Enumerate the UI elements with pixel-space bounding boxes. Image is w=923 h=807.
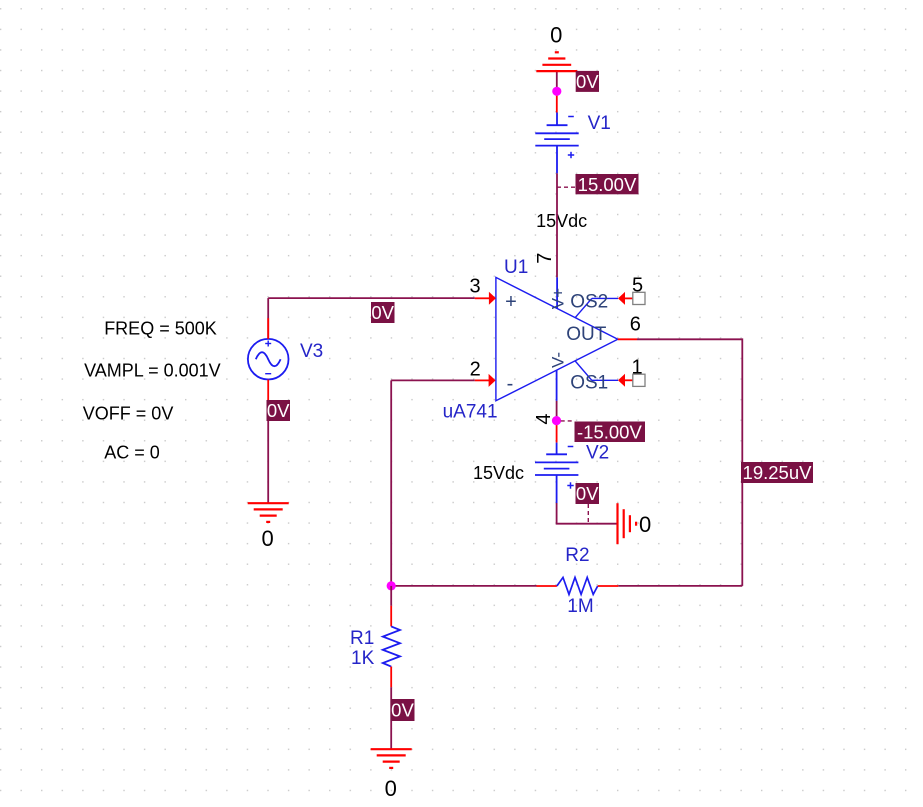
- op-amp OS2 internal lead: [575, 298, 618, 317]
- svg-text:15.00V: 15.00V: [578, 174, 637, 195]
- svg-text:R1: R1: [350, 628, 374, 649]
- pin stub V1 top (red): [556, 91, 558, 112]
- pin 6 stub (red): [618, 338, 637, 340]
- op-amp U1 triangle: [496, 277, 618, 400]
- junction dot (feedback node): [387, 581, 396, 590]
- op-amp OS1 internal lead: [575, 361, 618, 380]
- svg-text:0: 0: [639, 512, 651, 537]
- svg-text:-: -: [507, 373, 514, 395]
- dashed bias connector to -15.00V: [561, 420, 575, 422]
- sine source V3: [248, 339, 289, 380]
- svg-text:0V: 0V: [391, 700, 414, 721]
- ground 0 (below V3): [248, 503, 289, 522]
- wire: V2 bottom to side ground: [557, 503, 618, 524]
- svg-text:V-: V-: [549, 352, 568, 368]
- svg-text:VOFF = 0V: VOFF = 0V: [83, 403, 174, 423]
- ground 0 (below R1): [371, 749, 412, 768]
- R2 right stub (red): [598, 585, 619, 587]
- svg-text:0: 0: [385, 776, 397, 801]
- junction dot (top, V1/ground): [552, 87, 561, 96]
- svg-text:OS1: OS1: [570, 373, 608, 394]
- wire: pin2 corner down to junction: [390, 380, 392, 586]
- pin 5 terminal square: [633, 292, 645, 304]
- ground 0 (sideways, V2): [618, 503, 637, 544]
- bias label -15.00V: [575, 422, 646, 443]
- svg-text:uA741: uA741: [443, 402, 498, 423]
- battery V1: [535, 113, 578, 174]
- svg-text:6: 6: [630, 313, 641, 335]
- op-amp pin 4 stub (V-): [556, 370, 558, 401]
- wire: pin 2 horizontal: [391, 379, 475, 381]
- junction dot (pin 4 / V2): [552, 416, 561, 425]
- pin 2 arrowhead: [489, 374, 496, 387]
- R1 bottom stub (red): [390, 667, 392, 688]
- svg-text:1K: 1K: [351, 648, 375, 669]
- svg-text:AC = 0: AC = 0: [104, 443, 160, 463]
- svg-text:0: 0: [261, 526, 273, 551]
- pin 5 stub (red) with arrowhead: [625, 297, 633, 299]
- svg-text:FREQ = 500K: FREQ = 500K: [104, 319, 217, 339]
- svg-text:R2: R2: [565, 545, 589, 566]
- svg-text:OUT: OUT: [566, 324, 607, 345]
- wire: V1 bottom to op-amp pin 7: [556, 173, 558, 277]
- svg-text:0V: 0V: [371, 302, 394, 323]
- pin 2 stub (red): [475, 379, 490, 381]
- V2 top stub (red): [556, 421, 558, 443]
- battery V2: [535, 443, 578, 503]
- svg-text:-15.00V: -15.00V: [577, 422, 642, 443]
- wire: R1 to ground: [390, 687, 392, 749]
- svg-text:19.25uV: 19.25uV: [743, 462, 813, 483]
- svg-text:2: 2: [470, 358, 481, 380]
- wire: junction to R2 left: [391, 585, 536, 587]
- wire: pin 4 to V2: [556, 401, 558, 421]
- svg-text:0V: 0V: [576, 71, 599, 92]
- R2 left stub (red): [537, 585, 557, 587]
- bias label 0V (V2 bottom): [576, 483, 600, 504]
- dashed bias connector to 15.00V: [557, 186, 576, 188]
- bias label 0V (V3 top wire): [371, 302, 395, 323]
- op-amp pin 7 stub (V+): [556, 277, 558, 308]
- svg-text:+: +: [505, 291, 517, 313]
- svg-text:4: 4: [533, 413, 555, 424]
- bias label 0V (R1 bottom): [391, 699, 415, 721]
- wire: pin 6 to right rail: [637, 339, 742, 586]
- bias label 0V (below V3): [267, 400, 291, 421]
- svg-text:V3: V3: [300, 341, 323, 362]
- svg-text:1M: 1M: [567, 596, 593, 617]
- svg-text:OS2: OS2: [570, 292, 608, 313]
- ground 0 (top, above V1): [536, 52, 577, 71]
- svg-text:0V: 0V: [576, 483, 599, 504]
- svg-text:3: 3: [469, 276, 480, 298]
- svg-text:7: 7: [534, 253, 556, 264]
- bias label 15.00V: [576, 174, 639, 195]
- pin 1 terminal square: [633, 374, 645, 386]
- pin 3 stub (red): [475, 297, 490, 299]
- svg-text:15Vdc: 15Vdc: [473, 463, 524, 483]
- bias label 0V (top ground): [576, 71, 600, 92]
- wire: V3 to pin 3 (horizontal): [268, 297, 475, 299]
- V3 top stub (red): [267, 318, 269, 339]
- wire: V3 to ground: [267, 401, 269, 503]
- resistor R2: [557, 577, 598, 594]
- R1 top stub (red): [390, 606, 392, 627]
- svg-text:15Vdc: 15Vdc: [536, 211, 587, 231]
- bias label 19.25uV (output): [741, 462, 813, 483]
- wire: V3 top corner: [267, 298, 269, 339]
- wire: top ground to V1 top: [556, 71, 558, 92]
- V3 bottom stub (red): [267, 380, 269, 402]
- wire: junction down to R1: [390, 586, 392, 606]
- svg-text:U1: U1: [504, 257, 528, 278]
- resistor R1: [383, 626, 400, 666]
- svg-text:VAMPL = 0.001V: VAMPL = 0.001V: [84, 361, 221, 381]
- pin 3 arrowhead: [489, 292, 496, 305]
- svg-text:V+: V+: [548, 288, 567, 309]
- svg-text:0: 0: [550, 23, 562, 48]
- svg-text:V1: V1: [588, 113, 611, 134]
- svg-text:0V: 0V: [267, 400, 290, 421]
- svg-text:V2: V2: [586, 443, 609, 464]
- pin 1 stub (red) with arrowhead: [625, 379, 633, 381]
- wire: bottom rail (R2 right to right rail): [618, 585, 742, 587]
- dashed bias connector (V2 0V): [587, 504, 589, 524]
